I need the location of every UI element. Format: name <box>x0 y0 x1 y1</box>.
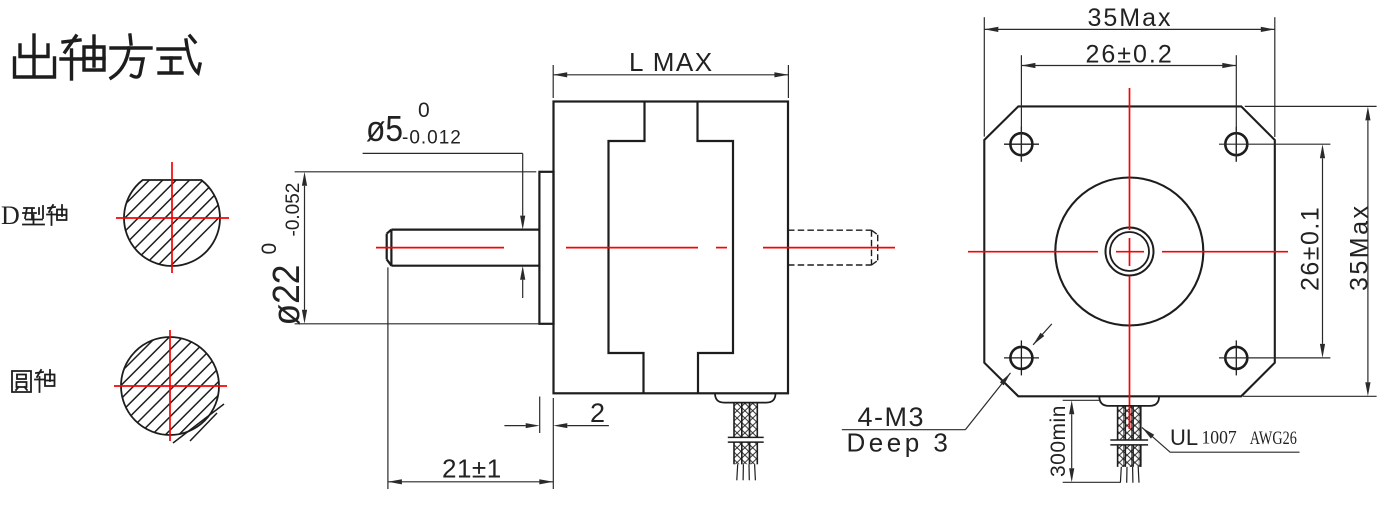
圆 <box>12 371 31 392</box>
svg-text:-0.052: -0.052 <box>283 183 304 237</box>
svg-text:Deep 3: Deep 3 <box>847 428 952 458</box>
round shaft cross-section circle <box>52 291 323 443</box>
pilot circle <box>1055 178 1203 326</box>
式 <box>158 36 200 73</box>
L MAX dimension <box>553 65 788 98</box>
dimension ø22 0/-0.052 <box>295 172 539 324</box>
轴 <box>35 370 44 392</box>
rear shaft (hidden, dashed) <box>788 230 878 265</box>
red centerlines (front view) <box>968 88 1288 429</box>
svg-text:35Max: 35Max <box>1088 4 1173 32</box>
轴 (车+由) <box>61 36 104 79</box>
cable grommet (front view) <box>1099 396 1159 406</box>
svg-text:2: 2 <box>590 398 605 428</box>
svg-text:26±0.2: 26±0.2 <box>1086 41 1174 69</box>
svg-text:ø22: ø22 <box>266 265 308 326</box>
dimension ø5 0/-0.012 <box>363 153 523 298</box>
outline: circle with flat top <box>124 180 220 266</box>
label 4-M3 Deep 3 with leader <box>842 324 1052 430</box>
D-type shaft cross-section circle <box>63 121 315 273</box>
方 <box>111 35 151 78</box>
mounting holes <box>1010 133 1247 369</box>
dimension 26±0.1 (right, rotated) <box>1219 144 1330 358</box>
dimension 26±0.2 <box>1021 55 1236 162</box>
face plate outline <box>984 106 1275 396</box>
red crosshair <box>116 162 229 273</box>
轴 <box>47 205 56 225</box>
shaft <box>391 230 539 266</box>
svg-text:AWG26: AWG26 <box>1250 428 1297 449</box>
svg-text:35Max: 35Max <box>1346 203 1374 291</box>
D-type shaft section : label D 型轴 <box>1 201 67 230</box>
dimension 21±1 <box>388 267 553 489</box>
svg-text:300min: 300min <box>1047 405 1070 477</box>
dimension 2 (boss width) <box>504 397 609 434</box>
svg-text:ø5: ø5 <box>366 108 403 149</box>
inner lamination profile <box>609 102 645 394</box>
svg-text:1007: 1007 <box>1202 428 1237 449</box>
hole crosshair ticks <box>1004 127 1236 376</box>
dimension 300min (rotated) <box>1063 400 1120 482</box>
svg-text:UL: UL <box>1170 425 1198 450</box>
cable tie band <box>1110 440 1148 445</box>
wire braid (front view) <box>1110 406 1148 483</box>
dimension 35Max (right, rotated) <box>1243 106 1377 396</box>
dimension 35Max (top) <box>984 17 1275 137</box>
label UL 1007 AWG26 with leader <box>1142 428 1300 453</box>
label 圆轴 <box>12 370 55 392</box>
red centerline (side view) <box>376 247 895 249</box>
center hole <box>1106 228 1154 276</box>
svg-text:21±1: 21±1 <box>442 454 502 484</box>
svg-text:-0.012: -0.012 <box>402 128 462 149</box>
svg-text:D: D <box>1 201 20 230</box>
svg-text:0: 0 <box>258 243 281 255</box>
hatching <box>63 121 315 266</box>
出 <box>15 35 55 77</box>
svg-text:0: 0 <box>418 99 430 122</box>
stray hatch marks outside circle bottom-right <box>173 404 224 443</box>
cable grommet (side view) <box>715 393 776 402</box>
loose wires <box>737 464 756 480</box>
title 出轴方式 (hand drawn CJK strokes) <box>15 35 201 79</box>
loose wires <box>1120 467 1139 483</box>
cable tie band <box>728 437 764 442</box>
motor body outline <box>387 102 788 394</box>
svg-text:L MAX: L MAX <box>629 47 714 77</box>
svg-text:26±0.1: 26±0.1 <box>1297 206 1325 291</box>
front boss <box>539 172 553 324</box>
wire braid (side view) <box>728 403 764 481</box>
red centerline over braid <box>1129 406 1131 429</box>
型 <box>23 208 36 218</box>
